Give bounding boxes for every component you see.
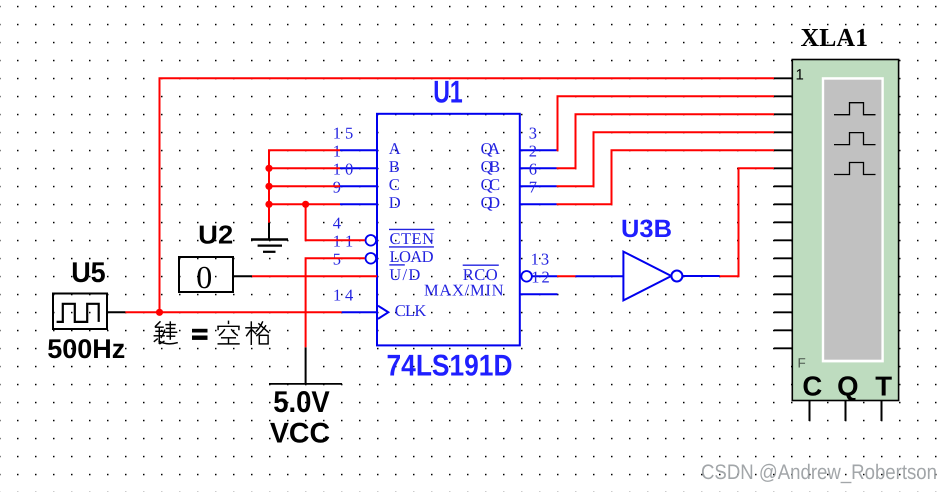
svg-text:C: C	[802, 371, 822, 402]
svg-text:QB: QB	[481, 157, 501, 176]
svg-text:LOAD: LOAD	[390, 247, 434, 266]
svg-text:D: D	[389, 193, 401, 212]
svg-text:T: T	[875, 371, 892, 402]
svg-text:7: 7	[529, 177, 537, 196]
svg-text:F: F	[798, 355, 806, 370]
svg-text:U2: U2	[198, 220, 233, 250]
svg-text:MAX/MIN: MAX/MIN	[424, 281, 504, 300]
svg-text:U/D: U/D	[389, 265, 420, 284]
svg-text:74LS191D: 74LS191D	[387, 350, 513, 383]
svg-text:6: 6	[529, 159, 537, 178]
svg-text:500Hz: 500Hz	[47, 334, 125, 364]
svg-text:0: 0	[196, 259, 212, 295]
svg-text:3: 3	[529, 123, 537, 142]
svg-text:Q: Q	[837, 371, 858, 402]
svg-text:C: C	[389, 175, 400, 194]
svg-text:2: 2	[529, 141, 537, 160]
svg-text:VCC: VCC	[270, 417, 330, 449]
svg-text:B: B	[389, 157, 400, 176]
svg-text:1: 1	[796, 67, 804, 84]
svg-text:U3B: U3B	[621, 215, 672, 243]
svg-text:XLA1: XLA1	[801, 23, 869, 52]
svg-text:4: 4	[333, 213, 341, 232]
svg-text:QA: QA	[481, 139, 501, 158]
svg-text:A: A	[389, 139, 401, 158]
svg-text:5.0V: 5.0V	[273, 386, 330, 419]
svg-text:CTEN: CTEN	[390, 229, 435, 248]
svg-text:CSDN @Andrew_Robertson: CSDN @Andrew_Robertson	[701, 461, 937, 484]
svg-text:QD: QD	[481, 193, 501, 212]
svg-text:CLK: CLK	[395, 301, 427, 320]
svg-text:U5: U5	[71, 257, 106, 289]
svg-text:QC: QC	[481, 175, 501, 194]
